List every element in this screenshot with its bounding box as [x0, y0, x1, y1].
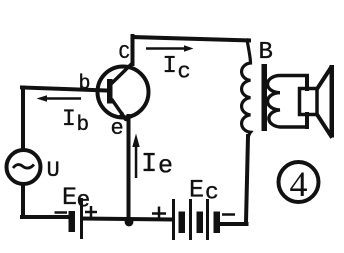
svg-text:b: b	[77, 114, 90, 137]
svg-text:c: c	[178, 60, 191, 85]
svg-text:e: e	[158, 152, 173, 181]
svg-text:I: I	[141, 150, 157, 180]
svg-text:U: U	[47, 158, 60, 183]
svg-text:4: 4	[290, 164, 308, 204]
svg-text:I: I	[163, 53, 177, 80]
svg-text:E: E	[62, 183, 77, 212]
svg-text:I: I	[62, 106, 76, 132]
svg-text:c: c	[205, 180, 219, 206]
svg-text:e: e	[111, 116, 124, 141]
svg-text:b: b	[79, 73, 91, 96]
svg-text:C: C	[119, 42, 130, 64]
svg-text:E: E	[189, 176, 204, 205]
svg-text:B: B	[259, 39, 273, 66]
svg-text:e: e	[77, 188, 91, 214]
